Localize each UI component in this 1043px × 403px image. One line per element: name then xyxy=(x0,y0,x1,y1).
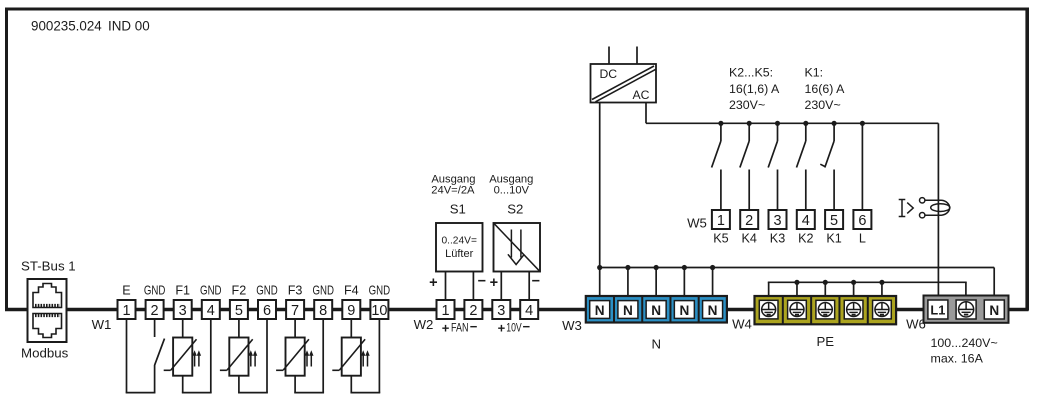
terminal W2 pin 4 xyxy=(520,300,538,319)
wire: N bus to W6 N terminal xyxy=(599,268,994,297)
power supply U1 (DC/AC converter) xyxy=(591,64,657,103)
svg-text:K1:: K1: xyxy=(805,66,824,80)
pin label K5 (W5) xyxy=(713,232,728,246)
junction dots on PE bus xyxy=(794,280,884,285)
svg-text:4: 4 xyxy=(802,213,810,229)
pin label F1 (W1 pin 3) xyxy=(175,284,190,298)
pin label GND (W1 pin 6) xyxy=(256,284,278,298)
current sensor I> (current transformer) xyxy=(899,198,950,218)
svg-text:0...10V: 0...10V xyxy=(494,185,530,197)
module S2 (0...10V analog output) xyxy=(489,174,540,272)
relay contact K1 xyxy=(820,123,834,210)
wire: DC output stubs of power supply xyxy=(609,47,637,65)
terminal W1 pin 10 xyxy=(370,300,388,319)
svg-text:K2: K2 xyxy=(798,232,813,246)
terminal W1 pin 6 xyxy=(258,300,276,319)
svg-text:K4: K4 xyxy=(741,232,756,246)
svg-text:+: + xyxy=(442,321,450,336)
terminal W1 pin 2 xyxy=(146,300,164,319)
wire: N bus drop to N terminal 4 xyxy=(683,268,685,297)
svg-text:N: N xyxy=(652,337,662,352)
label: mains rating 100...240V~ max. 16A xyxy=(931,336,998,366)
label W4 xyxy=(732,317,752,332)
terminal W1 pin 5 xyxy=(230,300,248,319)
svg-text:K2...K5:: K2...K5: xyxy=(729,66,773,80)
svg-text:PE: PE xyxy=(817,334,835,349)
svg-text:16(6) A: 16(6) A xyxy=(805,82,846,96)
svg-text:4: 4 xyxy=(525,303,533,319)
svg-text:N: N xyxy=(651,303,661,318)
terminal W2 pin 1 xyxy=(437,300,455,319)
wire: PE bus linking W4 terminals to W6 earth xyxy=(768,282,967,296)
svg-text:2: 2 xyxy=(469,303,477,319)
pin label K4 (W5) xyxy=(741,232,756,246)
thermistor F4 across W1 terminals 9-10 xyxy=(332,319,380,393)
thermistor F3 across W1 terminals 7-8 xyxy=(276,319,324,393)
label: relay rating K1 xyxy=(805,66,846,113)
svg-text:S2: S2 xyxy=(507,202,523,217)
svg-text:F4: F4 xyxy=(344,284,359,298)
terminal block W4: protective earth rail (5x PE) xyxy=(755,296,897,324)
pin label K2 (W5) xyxy=(798,232,813,246)
pin label K1 (W5) xyxy=(826,232,841,246)
label +10V- under W2 3-4 xyxy=(498,319,531,336)
svg-text:N: N xyxy=(708,303,718,318)
relay contact K3 xyxy=(768,123,777,210)
svg-text:K1: K1 xyxy=(826,232,841,246)
module S1 (0..24V= fan output) xyxy=(431,174,482,272)
terminal W1 pin 4 xyxy=(202,300,220,319)
wire: L feed to W5 pin 6 xyxy=(861,123,863,210)
net label N xyxy=(652,337,662,352)
svg-text:16(1,6) A: 16(1,6) A xyxy=(729,82,780,96)
polarity labels S2 (+ / -) xyxy=(490,274,540,292)
svg-text:4: 4 xyxy=(207,303,215,319)
svg-text:10V: 10V xyxy=(506,321,522,335)
wire: S2 output to W2 pins 3-4 xyxy=(501,272,529,301)
relay contact K4 xyxy=(740,123,749,210)
wire: main terminal bus W1-W6 (thick) xyxy=(5,308,1029,312)
label: relay ratings K2...K5 xyxy=(729,66,780,113)
svg-text:F2: F2 xyxy=(232,284,247,298)
terminal W1 pin 7 xyxy=(286,300,304,319)
polarity labels S1 (+ / -) xyxy=(429,274,486,292)
svg-text:100...240V~: 100...240V~ xyxy=(931,336,998,350)
wire: S1 output to W2 pins 1-2 xyxy=(446,272,474,301)
enclosure frame wire (left/top/right border) xyxy=(5,8,1029,311)
svg-text:L1: L1 xyxy=(930,303,945,318)
terminal W5 pin 2 xyxy=(740,210,758,229)
pin label E (W1 pin 1) xyxy=(122,284,130,298)
svg-text:Modbus: Modbus xyxy=(21,346,69,361)
label: drawing number 900235.024 IND 00 xyxy=(31,19,150,34)
svg-text:+: + xyxy=(490,275,498,291)
svg-text:ST-Bus 1: ST-Bus 1 xyxy=(21,259,76,274)
terminal W5 pin 3 xyxy=(769,210,787,229)
svg-text:3: 3 xyxy=(497,303,505,319)
terminal block W3/W4: neutral rail (5x N) xyxy=(586,296,727,323)
svg-text:230V~: 230V~ xyxy=(729,98,765,112)
svg-text:L: L xyxy=(859,232,866,246)
pin label GND (W1 pin 2) xyxy=(144,284,166,298)
pin label GND (W1 pin 10) xyxy=(369,284,391,298)
svg-text:K3: K3 xyxy=(770,232,785,246)
label +FAN- under W2 1-2 xyxy=(442,319,478,336)
pin label K3 (W5) xyxy=(770,232,785,246)
thermistor F1 across W1 terminals 3-4 xyxy=(164,319,212,393)
svg-text:S1: S1 xyxy=(450,202,466,217)
pin label F3 (W1 pin 7) xyxy=(288,284,303,298)
terminal block W6: mains input L1 / PE / N xyxy=(924,296,1009,323)
wire: N bus drop to N terminal 3 xyxy=(655,268,657,297)
svg-text:+: + xyxy=(498,321,506,336)
terminal W5 pin 4 xyxy=(797,210,815,229)
svg-text:24V=/2A: 24V=/2A xyxy=(431,185,475,197)
svg-text:1: 1 xyxy=(122,303,130,319)
junction dots on AC bus xyxy=(718,121,865,126)
svg-text:0..24V=: 0..24V= xyxy=(441,236,476,247)
svg-text:+: + xyxy=(429,275,437,291)
svg-text:W5: W5 xyxy=(687,216,707,231)
svg-text:max. 16A: max. 16A xyxy=(931,352,984,366)
svg-text:6: 6 xyxy=(858,213,866,229)
terminal W2 pin 3 xyxy=(492,300,510,319)
wire: N bus drop to N terminal 5 xyxy=(712,268,714,297)
svg-text:10: 10 xyxy=(371,303,387,319)
thermistor F2 across W1 terminals 5-6 xyxy=(220,319,268,393)
svg-text:−: − xyxy=(470,319,478,334)
terminal W1 pin 1 xyxy=(118,300,136,319)
svg-text:N: N xyxy=(623,303,633,318)
svg-text:F1: F1 xyxy=(175,284,190,298)
wire: N bus drop to N terminal 2 xyxy=(627,268,629,297)
switch contact S (door contact) across W1 terminals 1-2 xyxy=(126,319,165,393)
svg-text:K5: K5 xyxy=(713,232,728,246)
terminal W5 pin 6 xyxy=(853,210,871,229)
svg-text:1: 1 xyxy=(441,303,449,319)
label W1 xyxy=(92,317,112,332)
pin label GND (W1 pin 4) xyxy=(200,284,222,298)
svg-text:5: 5 xyxy=(830,213,838,229)
svg-text:E: E xyxy=(122,284,130,298)
relay contact K2 xyxy=(797,123,806,210)
svg-text:F3: F3 xyxy=(288,284,303,298)
svg-text:900235.024: 900235.024 xyxy=(31,19,102,34)
svg-text:−: − xyxy=(523,319,531,334)
svg-text:2: 2 xyxy=(745,213,753,229)
svg-text:1: 1 xyxy=(717,213,725,229)
svg-text:W4: W4 xyxy=(732,317,752,332)
pin label F4 (W1 pin 9) xyxy=(344,284,359,298)
svg-text:3: 3 xyxy=(773,213,781,229)
wire: L1 from AC bus through current sensor to W6 L1 xyxy=(937,178,939,295)
wire: AC bus (relay common) xyxy=(646,123,938,178)
wire: AC live feed from converter to AC bus xyxy=(645,103,647,124)
terminal W1 pin 8 xyxy=(314,300,332,319)
svg-text:W2: W2 xyxy=(414,317,434,332)
svg-text:W3: W3 xyxy=(562,318,582,333)
svg-text:GND: GND xyxy=(369,284,391,298)
svg-text:GND: GND xyxy=(144,284,166,298)
svg-text:6: 6 xyxy=(263,303,271,319)
relay contact K5 xyxy=(712,123,721,210)
label W6 xyxy=(906,317,926,332)
terminal W2 pin 2 xyxy=(464,300,482,319)
junction dots on N bus xyxy=(597,265,715,270)
svg-text:230V~: 230V~ xyxy=(805,98,841,112)
terminal W5 pin 5 xyxy=(825,210,843,229)
svg-text:5: 5 xyxy=(235,303,243,319)
svg-text:W1: W1 xyxy=(92,317,112,332)
terminal W1 pin 3 xyxy=(174,300,192,319)
svg-text:−: − xyxy=(478,274,486,290)
connector ST-Bus 1 (dual RJ45 / Modbus) xyxy=(21,259,76,361)
label W3 xyxy=(562,318,582,333)
terminal W5 pin 1 xyxy=(712,210,730,229)
net label PE xyxy=(817,334,835,349)
svg-text:3: 3 xyxy=(179,303,187,319)
svg-text:AC: AC xyxy=(633,88,650,102)
svg-text:2: 2 xyxy=(151,303,159,319)
svg-text:−: − xyxy=(532,274,540,290)
label W5 xyxy=(687,216,707,231)
svg-text:GND: GND xyxy=(312,284,334,298)
svg-text:8: 8 xyxy=(319,303,327,319)
svg-text:7: 7 xyxy=(291,303,299,319)
svg-text:GND: GND xyxy=(200,284,222,298)
svg-text:N: N xyxy=(595,303,605,318)
svg-text:Lüfter: Lüfter xyxy=(445,248,473,260)
svg-text:N: N xyxy=(679,303,689,318)
label W2 xyxy=(414,317,434,332)
svg-text:N: N xyxy=(989,303,999,318)
terminal W1 pin 9 xyxy=(342,300,360,319)
pin label F2 (W1 pin 5) xyxy=(232,284,247,298)
wire: DC/AC neutral down to N bus and W3 pin 1 xyxy=(599,103,601,297)
svg-text:GND: GND xyxy=(256,284,278,298)
svg-text:DC: DC xyxy=(600,67,618,81)
svg-text:FAN: FAN xyxy=(451,321,469,335)
pin label GND (W1 pin 8) xyxy=(312,284,334,298)
pin label L (W5) xyxy=(859,232,866,246)
svg-text:9: 9 xyxy=(347,303,355,319)
svg-text:IND 00: IND 00 xyxy=(108,19,150,34)
